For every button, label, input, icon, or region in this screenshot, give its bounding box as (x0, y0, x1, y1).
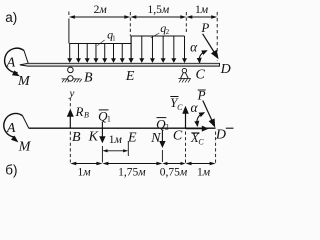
svg-text:C: C (198, 137, 204, 146)
svg-text:E: E (125, 69, 135, 84)
svg-text:α: α (190, 100, 198, 115)
svg-text:B: B (72, 130, 81, 145)
svg-text:1: 1 (107, 115, 111, 124)
svg-text:P: P (200, 20, 209, 35)
svg-text:y: y (69, 87, 75, 99)
svg-text:E: E (127, 130, 137, 145)
svg-text:M: M (17, 74, 31, 89)
svg-text:A: A (6, 55, 16, 70)
svg-text:1м: 1м (197, 166, 211, 178)
svg-text:C: C (173, 129, 183, 144)
svg-text:α: α (190, 39, 198, 54)
svg-text:1,75м: 1,75м (118, 166, 146, 178)
svg-text:D: D (220, 62, 231, 77)
svg-text:2: 2 (165, 122, 169, 131)
svg-text:R: R (75, 104, 84, 119)
svg-text:B: B (84, 70, 93, 85)
svg-text:B: B (84, 111, 89, 120)
svg-text:2м: 2м (94, 4, 108, 16)
svg-text:1м: 1м (195, 4, 209, 16)
svg-text:A: A (6, 121, 16, 136)
svg-text:1м: 1м (109, 134, 123, 146)
svg-text:N: N (150, 131, 161, 146)
svg-text:а): а) (5, 10, 17, 25)
svg-text:D: D (215, 128, 226, 143)
svg-text:2: 2 (166, 28, 170, 36)
svg-text:C: C (196, 67, 206, 82)
svg-text:C: C (177, 103, 183, 112)
svg-text:1м: 1м (77, 166, 91, 178)
svg-text:M: M (18, 139, 32, 154)
svg-text:K: K (88, 129, 99, 144)
svg-text:б): б) (5, 163, 17, 178)
svg-text:0,75м: 0,75м (160, 166, 188, 178)
svg-text:1,5м: 1,5м (147, 4, 169, 16)
svg-text:1: 1 (112, 34, 116, 42)
